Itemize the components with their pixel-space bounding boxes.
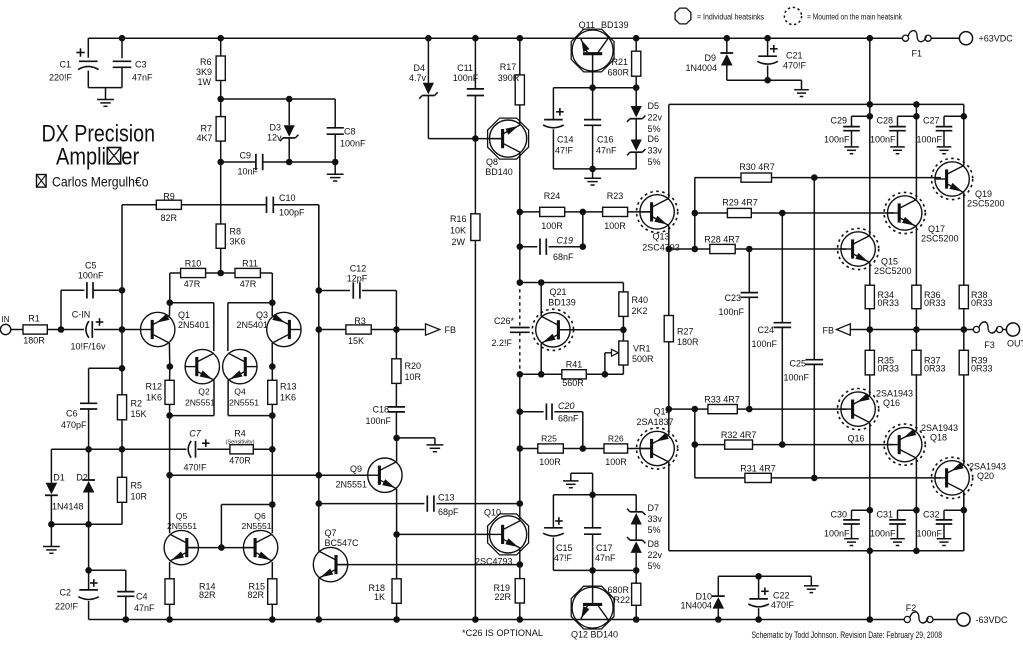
- wire: [220, 162, 222, 224]
- junction: [580, 243, 587, 250]
- label R7: [196, 124, 212, 144]
- wire: [434, 438, 436, 445]
- svg-text:1K6: 1K6: [280, 393, 296, 403]
- wire: [635, 152, 637, 169]
- wire: [963, 491, 965, 550]
- wire Q18 collector: [915, 458, 917, 551]
- wire bias row: [553, 87, 636, 89]
- svg-text:R30 4R7: R30 4R7: [739, 162, 775, 172]
- label C6: [61, 409, 87, 431]
- wire: [519, 374, 521, 411]
- svg-text:47R: 47R: [184, 279, 201, 289]
- wire: [169, 273, 171, 303]
- wire: [121, 449, 123, 477]
- svg-text:47R: 47R: [240, 279, 257, 289]
- svg-text:100R: 100R: [604, 221, 626, 231]
- wire: [271, 404, 273, 415]
- wire: [88, 409, 90, 449]
- svg-text:BD139: BD139: [548, 298, 576, 308]
- junction: [715, 616, 722, 623]
- label C-IN: [70, 310, 106, 352]
- diode D9: [720, 53, 733, 66]
- label R4: [226, 429, 255, 466]
- junction: [867, 616, 874, 623]
- svg-text:0R33: 0R33: [971, 298, 993, 308]
- wire: [726, 38, 728, 53]
- svg-text:C7: C7: [189, 429, 201, 439]
- junction: [85, 521, 92, 528]
- svg-text:D7: D7: [648, 503, 660, 513]
- label Q16 lower: [847, 434, 864, 444]
- svg-text:IN: IN: [2, 315, 10, 324]
- wire: [519, 38, 521, 75]
- junction: [472, 616, 479, 623]
- svg-text:500R: 500R: [632, 354, 654, 364]
- svg-text:68nF: 68nF: [558, 414, 579, 424]
- wire: [586, 373, 623, 375]
- wire: [271, 273, 273, 303]
- wire: [897, 524, 899, 539]
- transistor Q14: [637, 428, 678, 469]
- resistor R18: [392, 579, 401, 604]
- transistor Q15: [838, 228, 879, 269]
- wire: [592, 495, 594, 528]
- wire: [552, 537, 554, 570]
- capacitor C17: [584, 528, 601, 534]
- wire: [121, 420, 123, 450]
- junction: [724, 35, 731, 42]
- resistor R7: [216, 117, 225, 142]
- capacitor C-IN: [86, 321, 92, 338]
- wire Q21 collector: [540, 283, 542, 317]
- junction: [692, 210, 699, 217]
- wire: [228, 302, 272, 304]
- wire: [553, 569, 636, 571]
- svg-text:100R: 100R: [539, 457, 561, 467]
- junction: [166, 412, 173, 419]
- svg-text:10R: 10R: [131, 492, 148, 502]
- label Q17: [921, 224, 959, 244]
- resistor R37: [912, 350, 921, 375]
- transistor Q20: [932, 457, 973, 498]
- wire: [60, 290, 62, 329]
- resistor R39: [959, 350, 968, 375]
- junction: [589, 492, 596, 499]
- svg-text:Q10: Q10: [484, 508, 501, 518]
- label R20: [405, 361, 422, 382]
- svg-text:C1: C1: [59, 60, 71, 70]
- junction: [913, 507, 920, 514]
- svg-text:C20: C20: [558, 401, 575, 411]
- svg-text:C26*: C26*: [494, 316, 515, 326]
- wire: [395, 383, 397, 407]
- label R10: [184, 259, 202, 290]
- wire: [943, 116, 945, 126]
- zener D8: [627, 537, 645, 553]
- junction: [85, 567, 92, 574]
- svg-text:Q1: Q1: [178, 310, 190, 320]
- svg-text:BD140: BD140: [485, 167, 513, 177]
- svg-text:47nF: 47nF: [132, 73, 153, 83]
- svg-text:100nF: 100nF: [824, 135, 850, 145]
- wire: [851, 510, 853, 520]
- label Q14: [636, 407, 673, 428]
- resistor R26: [604, 444, 628, 453]
- resistor R27: [664, 316, 673, 342]
- svg-text:5%: 5%: [648, 124, 661, 134]
- label C2: [55, 588, 79, 612]
- junction: [393, 616, 400, 623]
- transistor Q16: [838, 389, 879, 430]
- labels D1 D2: [52, 473, 88, 512]
- svg-text:C12: C12: [350, 264, 367, 274]
- label Q8: [485, 157, 513, 177]
- wire: [121, 502, 123, 524]
- svg-text:2SA1837: 2SA1837: [636, 417, 673, 427]
- wire: [622, 316, 624, 329]
- credit text: [752, 630, 943, 640]
- wire: [362, 290, 396, 292]
- wire: [669, 408, 695, 410]
- label F1: [912, 49, 923, 59]
- junction: [764, 77, 771, 84]
- capacitor C16: [584, 120, 601, 126]
- junction: [217, 270, 224, 277]
- wire: [570, 473, 572, 481]
- junction: [867, 507, 874, 514]
- label C16: [596, 135, 617, 156]
- ground (C22): [804, 586, 819, 593]
- label C18: [365, 405, 391, 427]
- capacitor C19: [540, 239, 546, 255]
- wire: [552, 495, 554, 528]
- wire: [897, 116, 899, 126]
- ground (C32): [937, 539, 952, 546]
- wire Q19 emitter: [963, 193, 965, 286]
- svg-text:82R: 82R: [199, 590, 216, 600]
- potentiometer VR1: [619, 341, 628, 365]
- label FB right: [822, 326, 834, 336]
- wire +63 distribution: [669, 103, 964, 105]
- author text: [52, 175, 149, 190]
- wire: [635, 495, 637, 512]
- resistor R1: [23, 325, 47, 334]
- transistor Q2: [185, 349, 219, 383]
- junction: [517, 616, 524, 623]
- wire: [288, 138, 290, 162]
- wire: [781, 327, 783, 444]
- label C22 plus: [761, 588, 769, 596]
- zener D4: [419, 83, 437, 99]
- svg-text:0R33: 0R33: [924, 298, 946, 308]
- label Q15: [874, 257, 912, 277]
- junction: [167, 299, 174, 306]
- resistor R14: [165, 579, 174, 605]
- junction: [316, 616, 323, 623]
- label C15 plus: [555, 517, 563, 525]
- wire: [520, 246, 538, 248]
- label VR1: [632, 344, 654, 365]
- junction: [666, 406, 673, 413]
- wire: [552, 88, 554, 120]
- wire link: [694, 178, 696, 249]
- svg-text:Q21: Q21: [549, 287, 566, 297]
- wire Q2 emitter: [213, 380, 215, 416]
- junction: [867, 548, 874, 555]
- label C27: [916, 116, 942, 145]
- capacitor C29: [843, 127, 860, 131]
- svg-text:10nF: 10nF: [237, 167, 258, 177]
- svg-text:3K9: 3K9: [196, 67, 212, 77]
- wire VR1 wiper: [604, 353, 606, 375]
- junction: [316, 287, 323, 294]
- wire: [395, 330, 397, 359]
- wire: [592, 473, 594, 495]
- svg-text:Q20: Q20: [977, 471, 994, 481]
- svg-text:R29 4R7: R29 4R7: [722, 198, 758, 208]
- transistor Q19: [932, 158, 973, 199]
- transistor Q5: [164, 530, 198, 564]
- wire: [89, 569, 126, 571]
- resistor R23: [603, 207, 628, 216]
- svg-text:2N5401: 2N5401: [178, 320, 210, 330]
- svg-text:100nF: 100nF: [824, 529, 850, 539]
- svg-text:0R33: 0R33: [971, 364, 993, 374]
- label D5: [648, 101, 663, 134]
- svg-text:2SC4793: 2SC4793: [642, 243, 680, 253]
- svg-text:R23: R23: [607, 191, 624, 201]
- wire: [319, 503, 425, 505]
- wire: [915, 330, 917, 351]
- svg-text:470pF: 470pF: [61, 420, 87, 430]
- wire output rail: [850, 329, 973, 331]
- wire: [669, 248, 695, 250]
- transistor Q17: [884, 192, 925, 233]
- svg-text:1N4004: 1N4004: [680, 601, 712, 611]
- wire: [125, 570, 127, 591]
- fuse F1: [902, 31, 931, 42]
- wire: [748, 249, 750, 293]
- junction: [517, 445, 524, 452]
- junction: [755, 573, 762, 580]
- wire: [94, 329, 122, 331]
- resistor R4: [230, 445, 253, 454]
- transistor Q21: [532, 309, 573, 350]
- junction: [269, 446, 276, 453]
- wire: [519, 105, 521, 125]
- svg-text:C16: C16: [597, 135, 614, 145]
- label R8: [230, 227, 246, 247]
- svg-text:R17: R17: [500, 62, 517, 72]
- svg-text:100nF: 100nF: [870, 135, 896, 145]
- svg-text:er: er: [121, 144, 139, 171]
- wire: [334, 162, 336, 174]
- resistor R30: [741, 173, 772, 182]
- wire: [718, 575, 811, 577]
- resistor R6: [216, 56, 225, 81]
- resistor R12: [165, 380, 174, 404]
- label C13: [438, 493, 459, 518]
- svg-text:2.2!F: 2.2!F: [491, 338, 512, 348]
- junction: [167, 363, 174, 370]
- resistor R29: [727, 208, 751, 217]
- label R36: [924, 290, 946, 308]
- svg-text:R2: R2: [131, 399, 143, 409]
- zener D3: [280, 125, 298, 141]
- wire Q12 base: [592, 570, 594, 605]
- svg-text:220!F: 220!F: [55, 602, 79, 612]
- wire Q21 emitter: [540, 343, 542, 374]
- svg-text:47!F: 47!F: [554, 553, 573, 563]
- label R30: [739, 162, 775, 172]
- junction: [217, 35, 224, 42]
- label D10: [680, 592, 712, 611]
- wire: [810, 576, 812, 586]
- svg-text:33v: 33v: [648, 514, 663, 524]
- wire: [121, 38, 123, 58]
- svg-text:R26: R26: [608, 434, 624, 444]
- wire: [253, 448, 272, 450]
- svg-text:R31 4R7: R31 4R7: [740, 464, 776, 474]
- resistor R41: [562, 370, 587, 379]
- wire: [695, 177, 741, 179]
- svg-text:R24: R24: [544, 191, 561, 201]
- label R14: [199, 582, 216, 601]
- label C28: [870, 116, 896, 145]
- resistor R9: [156, 200, 181, 209]
- wire: [125, 596, 127, 619]
- wire: [220, 505, 222, 548]
- svg-text:390R: 390R: [498, 73, 520, 83]
- wire: [943, 524, 945, 539]
- label R32: [721, 430, 757, 440]
- zener D7: [627, 509, 645, 525]
- label C31: [870, 510, 896, 539]
- svg-text:Ampli: Ampli: [56, 144, 106, 171]
- svg-text:R12: R12: [145, 382, 162, 392]
- capacitor C23: [741, 293, 759, 298]
- ground (input clamp): [43, 547, 60, 554]
- junction: [166, 616, 173, 623]
- svg-text:C29: C29: [830, 116, 847, 126]
- wire: [758, 576, 760, 599]
- capacitor C27: [936, 127, 953, 131]
- resistor R20: [392, 359, 401, 384]
- terminal -63VDC: [957, 613, 970, 626]
- junction: [589, 567, 596, 574]
- wire Q1 collector: [168, 343, 170, 367]
- svg-text:FB: FB: [822, 326, 834, 336]
- ground (Q9 collector): [427, 445, 444, 452]
- wire: [228, 415, 272, 417]
- wire: [436, 503, 519, 505]
- junction: [119, 287, 126, 294]
- svg-text:100nF: 100nF: [365, 416, 391, 426]
- wire: [206, 272, 235, 274]
- junction: [779, 441, 786, 448]
- svg-text:C22: C22: [773, 591, 790, 601]
- wire: [963, 375, 965, 465]
- label Q11: [579, 20, 629, 30]
- label C26: [491, 316, 514, 348]
- junction: [123, 616, 130, 623]
- wire: [181, 204, 266, 206]
- svg-text:Q3: Q3: [256, 310, 268, 320]
- legend text 2: [807, 13, 903, 22]
- svg-text:= Individual heatsinks: = Individual heatsinks: [697, 13, 764, 22]
- transistor Q8: [488, 118, 529, 159]
- resistor R11: [235, 268, 260, 277]
- junction: [166, 472, 173, 479]
- wire: [169, 367, 171, 381]
- svg-text:22v: 22v: [648, 550, 663, 560]
- svg-text:100nF: 100nF: [916, 135, 942, 145]
- wire: [88, 368, 90, 403]
- junction: [811, 174, 818, 181]
- junction: [692, 246, 699, 253]
- svg-text:C2: C2: [59, 588, 71, 598]
- diode D10: [712, 596, 725, 609]
- ground (lower bias): [563, 481, 579, 488]
- capacitor C1: [76, 48, 98, 69]
- wire: [88, 449, 90, 480]
- capacitor C15: [543, 528, 564, 536]
- wire: [121, 67, 123, 87]
- junction: [580, 209, 587, 216]
- svg-text:(Sensitivity): (Sensitivity): [226, 440, 255, 446]
- wire Q8 base row: [428, 138, 502, 140]
- junction: [517, 561, 524, 568]
- junction: [779, 210, 786, 217]
- wire: [221, 98, 336, 100]
- wire Q1 emitter: [168, 303, 170, 316]
- junction: [692, 441, 699, 448]
- junction: [119, 35, 126, 42]
- label Q6: [241, 511, 271, 531]
- label Q5: [167, 511, 197, 531]
- junction: [867, 101, 874, 108]
- svg-text:22R: 22R: [494, 592, 511, 602]
- wire: [474, 38, 476, 89]
- label R17: [498, 62, 520, 83]
- wire to Q20 base: [771, 477, 941, 479]
- svg-text:D1: D1: [53, 473, 65, 483]
- svg-text:Q15: Q15: [881, 257, 898, 267]
- resistor R3: [346, 325, 371, 334]
- wire: [427, 96, 429, 139]
- wire: [695, 408, 708, 410]
- title text: [42, 121, 156, 171]
- label C5: [78, 261, 104, 281]
- svg-text:100pF: 100pF: [279, 208, 305, 218]
- wire: [737, 408, 749, 410]
- svg-text:R7: R7: [200, 124, 212, 134]
- wire: [169, 404, 171, 415]
- junction: [393, 326, 400, 333]
- junction: [961, 326, 968, 333]
- label C19: [553, 236, 574, 263]
- svg-text:560R: 560R: [562, 378, 584, 388]
- capacitor C7: [188, 441, 195, 458]
- label F2: [906, 603, 917, 613]
- wire: [318, 205, 320, 291]
- svg-text:C19: C19: [557, 236, 574, 246]
- svg-text:R11: R11: [242, 259, 258, 269]
- label Q9: [335, 464, 367, 490]
- wire: [622, 283, 624, 292]
- svg-text:FB: FB: [445, 325, 457, 335]
- wire: [88, 601, 90, 620]
